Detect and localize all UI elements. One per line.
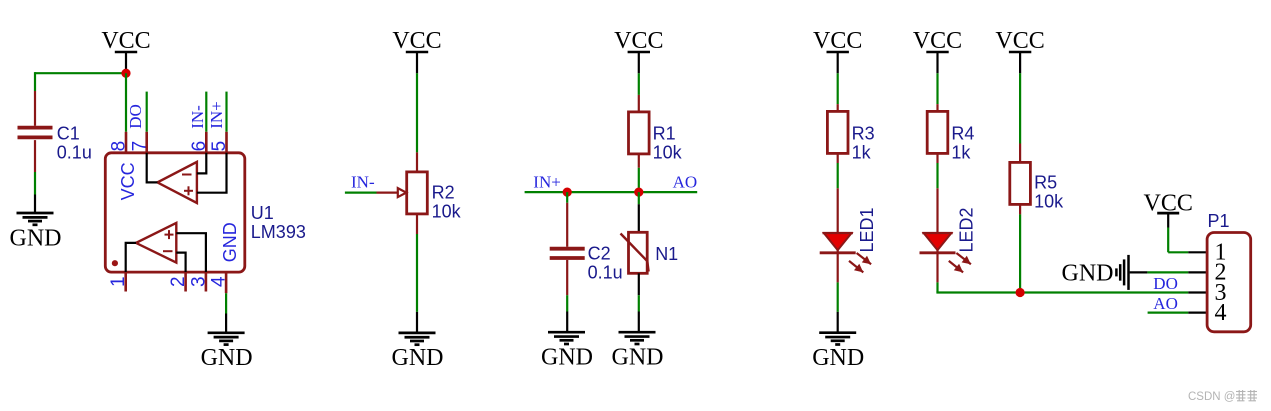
svg-text:IN+: IN+: [533, 173, 561, 192]
svg-text:C1: C1: [57, 123, 80, 143]
svg-text:AO: AO: [1153, 294, 1178, 313]
svg-text:DO: DO: [126, 104, 145, 129]
svg-text:0.1u: 0.1u: [57, 142, 92, 162]
svg-text:IN-: IN-: [351, 172, 375, 191]
svg-text:P1: P1: [1208, 211, 1230, 231]
svg-text:GND: GND: [220, 222, 240, 262]
svg-text:GND: GND: [612, 345, 664, 371]
svg-text:R5: R5: [1034, 173, 1057, 193]
svg-text:3: 3: [188, 276, 209, 287]
svg-text:2: 2: [168, 276, 189, 287]
svg-text:CSDN @: CSDN @: [1188, 391, 1235, 403]
svg-text:VCC: VCC: [813, 28, 862, 54]
svg-text:10k: 10k: [1034, 192, 1064, 212]
svg-text:R2: R2: [432, 183, 455, 203]
svg-text:1: 1: [108, 276, 129, 287]
svg-text:10k: 10k: [653, 143, 683, 163]
svg-text:VCC: VCC: [614, 28, 663, 54]
svg-text:DO: DO: [1153, 274, 1178, 293]
svg-text:1k: 1k: [951, 143, 971, 163]
svg-text:4: 4: [1215, 300, 1227, 326]
svg-text:VCC: VCC: [913, 28, 962, 54]
svg-text:LED2: LED2: [957, 207, 977, 252]
svg-text:GND: GND: [392, 345, 444, 371]
svg-text:4: 4: [209, 276, 230, 287]
svg-text:7: 7: [129, 141, 150, 152]
svg-text:N1: N1: [655, 244, 678, 264]
svg-text:8: 8: [109, 141, 130, 152]
svg-text:10k: 10k: [432, 202, 462, 222]
svg-text:1k: 1k: [852, 143, 872, 163]
svg-text:R3: R3: [852, 124, 875, 144]
svg-text:VCC: VCC: [392, 28, 441, 54]
svg-text:GND: GND: [1062, 260, 1114, 286]
svg-text:VCC: VCC: [101, 28, 150, 54]
svg-text:C2: C2: [588, 244, 611, 264]
svg-text:VCC: VCC: [995, 28, 1044, 54]
svg-text:GND: GND: [541, 345, 593, 371]
svg-text:IN-: IN-: [188, 105, 207, 129]
svg-text:R4: R4: [951, 124, 974, 144]
svg-text:GND: GND: [10, 225, 62, 251]
svg-text:5: 5: [209, 141, 230, 152]
svg-text:LED1: LED1: [857, 207, 877, 252]
svg-text:U1: U1: [251, 203, 274, 223]
svg-text:R1: R1: [653, 123, 676, 143]
svg-text:LM393: LM393: [251, 222, 306, 242]
svg-text:AO: AO: [673, 173, 698, 192]
svg-text:0.1u: 0.1u: [588, 263, 623, 283]
svg-text:VCC: VCC: [118, 162, 138, 200]
svg-text:GND: GND: [201, 345, 253, 371]
svg-text:6: 6: [189, 141, 210, 152]
svg-text:IN+: IN+: [207, 101, 226, 129]
svg-text:GND: GND: [812, 345, 864, 371]
